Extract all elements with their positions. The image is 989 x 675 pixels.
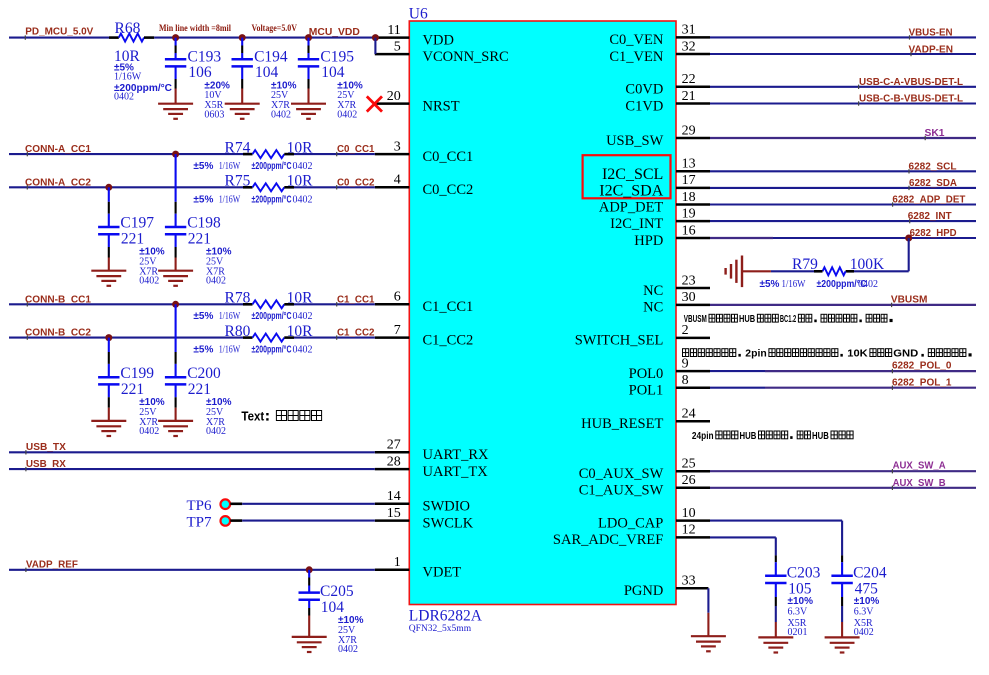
- R68 value 10R: [114, 48, 141, 65]
- ground under C203: [758, 637, 793, 652]
- ground under C193: [158, 104, 193, 119]
- svg-text:10R: 10R: [287, 172, 314, 189]
- junction MCU_VDD at C194: [239, 34, 246, 41]
- svg-text:C197: C197: [120, 215, 154, 232]
- svg-text:1/16W: 1/16W: [219, 194, 241, 205]
- R75 value 10R: [287, 172, 314, 189]
- svg-text:C0VD: C0VD: [625, 82, 663, 98]
- wire USB_RX: [9, 467, 375, 471]
- C205 parameters: [338, 615, 364, 655]
- pin 10 LDO_CAP: [598, 506, 710, 532]
- svg-text:SWITCH_SEL: SWITCH_SEL: [575, 333, 664, 349]
- svg-text:106: 106: [188, 64, 212, 81]
- wire branch to pin 5: [374, 38, 376, 55]
- net label USB_RX: [26, 458, 66, 470]
- net label 6282_INT: [908, 210, 953, 222]
- svg-text:6282_SDA: 6282_SDA: [909, 177, 957, 189]
- C205 designator: [320, 583, 354, 600]
- svg-text:11: 11: [387, 23, 400, 38]
- svg-text:R78: R78: [225, 290, 251, 307]
- note Voltage=5.0V: [252, 24, 298, 34]
- svg-text:BC1.2: BC1.2: [780, 314, 797, 325]
- pin 19 I2C_INT: [610, 206, 710, 232]
- C200 parameters: [206, 397, 232, 437]
- test point TP6: [221, 499, 375, 509]
- note HUB reset chinese: [692, 431, 853, 442]
- net label USB_TX: [26, 441, 66, 453]
- svg-text:22: 22: [682, 72, 696, 87]
- svg-text:C193: C193: [188, 49, 222, 66]
- svg-text:USB-C-B-VBUS-DET-L: USB-C-B-VBUS-DET-L: [859, 93, 964, 105]
- svg-text:SK1: SK1: [925, 127, 945, 139]
- wire SAR_ADC_VREF to C203: [710, 537, 776, 555]
- wire CONN-B_CC2: [9, 335, 375, 339]
- svg-text:C194: C194: [254, 49, 288, 66]
- svg-text:0402: 0402: [293, 345, 313, 356]
- IC designator U6: [409, 6, 428, 23]
- svg-text:21: 21: [682, 89, 696, 104]
- C198 parameters: [206, 247, 232, 287]
- C199 parameters: [139, 397, 165, 437]
- C195 parameters: [337, 81, 363, 121]
- note game-console chinese: [683, 349, 972, 360]
- svg-text:C0_VEN: C0_VEN: [609, 32, 664, 48]
- svg-text:30: 30: [682, 290, 696, 305]
- svg-text:HUB_RESET: HUB_RESET: [581, 416, 663, 432]
- ground at PGND pin 33: [691, 636, 726, 651]
- test point TP7: [221, 516, 375, 526]
- svg-text:R79: R79: [792, 256, 818, 273]
- svg-text:POL1: POL1: [629, 383, 664, 399]
- net label USB-C-B-VBUS-DET-L: [859, 93, 964, 105]
- pin 8 POL1: [629, 373, 710, 399]
- ground under C195: [291, 104, 326, 119]
- svg-text:C0_CC1: C0_CC1: [423, 149, 474, 165]
- C193 value 106: [188, 64, 212, 81]
- svg-text:6: 6: [394, 290, 401, 305]
- svg-text:5: 5: [394, 39, 401, 54]
- svg-text:26: 26: [682, 473, 696, 488]
- svg-text:10R: 10R: [287, 139, 314, 156]
- R75 designator: [225, 172, 251, 189]
- svg-text:C203: C203: [787, 565, 821, 582]
- svg-text:0402: 0402: [854, 627, 874, 638]
- svg-text:0402: 0402: [206, 276, 226, 287]
- svg-text:I2C_SCL: I2C_SCL: [602, 166, 663, 183]
- svg-text:0402: 0402: [139, 426, 159, 437]
- C200 value 221: [188, 381, 211, 398]
- C198 designator: [187, 215, 221, 232]
- capacitor C203: [765, 555, 786, 637]
- svg-text:Text: Text: [241, 410, 265, 424]
- svg-text:C199: C199: [120, 365, 154, 382]
- C193 designator: [188, 49, 222, 66]
- svg-text:USB_SW: USB_SW: [606, 133, 664, 149]
- C203 parameters: [788, 596, 814, 638]
- wire 6282_ADP_DET: [710, 202, 976, 206]
- wire VBUSM: [710, 303, 976, 307]
- R74 designator: [225, 139, 251, 156]
- red highlight box around I2C pins: [583, 155, 671, 198]
- svg-text:29: 29: [682, 123, 696, 138]
- R79 value 100K: [850, 256, 885, 273]
- wire SK1: [710, 136, 976, 140]
- svg-text:R68: R68: [115, 20, 141, 37]
- resistor R78: [243, 300, 294, 308]
- svg-text:CONN-A_CC1: CONN-A_CC1: [25, 143, 91, 155]
- svg-text:MCU_VDD: MCU_VDD: [309, 26, 360, 38]
- R68 parameters: [114, 63, 172, 103]
- junction CONN-B_CC2 at C199: [105, 334, 112, 341]
- svg-text:AUX_SW_A: AUX_SW_A: [893, 460, 946, 472]
- svg-text:10R: 10R: [287, 290, 314, 307]
- svg-text:C1VD: C1VD: [625, 98, 663, 114]
- svg-text:0603: 0603: [204, 109, 224, 120]
- wire CONN-A_CC1: [9, 152, 375, 156]
- svg-text:QFN32_5x5mm: QFN32_5x5mm: [409, 624, 472, 634]
- svg-text:C1_VEN: C1_VEN: [609, 49, 664, 65]
- svg-text:15: 15: [387, 506, 401, 521]
- pin 24 HUB_RESET: [581, 407, 710, 433]
- wire VBUS-EN: [710, 35, 976, 39]
- C198 value 221: [188, 231, 211, 248]
- svg-text:VCONN_SRC: VCONN_SRC: [423, 49, 509, 65]
- net label VBUS-EN: [909, 26, 953, 38]
- svg-text:0402: 0402: [293, 311, 313, 322]
- svg-text:HUB: HUB: [740, 431, 757, 442]
- pin 5 VCONN_SRC: [375, 39, 509, 65]
- net label 6282_POL_0: [892, 360, 952, 372]
- svg-text:C1_CC1: C1_CC1: [337, 293, 375, 305]
- pin 28 UART_TX: [375, 454, 488, 480]
- svg-text:1/16W: 1/16W: [114, 71, 142, 82]
- svg-text:R74: R74: [225, 139, 251, 156]
- net label 6282_SDA: [909, 177, 957, 189]
- pin 11 VDD: [375, 23, 454, 49]
- C197 value 221: [121, 231, 144, 248]
- resistor R74: [243, 150, 294, 158]
- svg-text:221: 221: [121, 231, 144, 248]
- svg-text:±5%: ±5%: [193, 194, 213, 205]
- pin 15 SWCLK: [375, 506, 474, 532]
- C197 designator: [120, 215, 154, 232]
- pin 25 C0_AUX_SW: [579, 457, 710, 483]
- svg-text:VADP_REF: VADP_REF: [26, 559, 79, 571]
- svg-text:2pin: 2pin: [745, 349, 766, 360]
- net label 6282_POL_1: [892, 376, 952, 388]
- svg-text:2: 2: [682, 323, 689, 338]
- net label SK1: [925, 127, 945, 139]
- svg-text:±200ppm/°C: ±200ppm/°C: [252, 345, 292, 356]
- svg-text:PGND: PGND: [624, 583, 663, 599]
- net label AUX_SW_B: [893, 477, 946, 489]
- capacitor C194: [232, 38, 253, 104]
- svg-text:C1_AUX_SW: C1_AUX_SW: [579, 483, 664, 499]
- wire HPD to R79: [854, 238, 909, 271]
- svg-text:±5%: ±5%: [193, 161, 213, 172]
- pin 22 C0VD: [625, 72, 710, 98]
- pin 16 HPD: [634, 223, 710, 249]
- svg-text:GND: GND: [893, 349, 918, 360]
- svg-text:C1_CC2: C1_CC2: [423, 332, 474, 348]
- net label 6282_SCL: [909, 160, 958, 172]
- svg-text:10K: 10K: [847, 349, 867, 360]
- svg-text:C1_CC2: C1_CC2: [337, 327, 375, 339]
- pin 26 C1_AUX_SW: [579, 473, 710, 499]
- svg-text:CONN-B_CC2: CONN-B_CC2: [25, 327, 91, 339]
- svg-text:31: 31: [682, 23, 696, 38]
- wire CONN-A_CC2: [9, 185, 375, 189]
- svg-text:0402: 0402: [337, 109, 357, 120]
- net label PD_MCU_5.0V: [25, 26, 93, 38]
- svg-text:SWDIO: SWDIO: [423, 499, 471, 515]
- TP6 label: [186, 498, 212, 514]
- wire USB-C-B-VBUS-DET-L: [710, 101, 976, 105]
- svg-text:4: 4: [394, 173, 401, 188]
- pin 33 PGND: [624, 574, 709, 600]
- R80 parameters: [193, 345, 312, 356]
- svg-text:Voltage=5.0V: Voltage=5.0V: [252, 24, 298, 34]
- svg-text:C0_CC1: C0_CC1: [337, 143, 375, 155]
- junction CONN-A_CC1 at C198: [172, 151, 179, 158]
- net label CONN-A_CC2: [25, 176, 91, 188]
- svg-text:221: 221: [188, 381, 211, 398]
- svg-text:ADP_DET: ADP_DET: [599, 199, 664, 215]
- svg-text:±10%: ±10%: [854, 596, 880, 607]
- svg-text:221: 221: [188, 231, 211, 248]
- net label C1_CC2: [337, 327, 375, 340]
- svg-text:16: 16: [682, 223, 696, 238]
- svg-text:±5%: ±5%: [193, 311, 213, 322]
- svg-text:NC: NC: [643, 283, 663, 299]
- net label MCU_VDD: [309, 26, 360, 38]
- pin 6 C1_CC1: [375, 290, 473, 316]
- junction MCU_VDD at C193: [172, 34, 179, 41]
- R78 value 10R: [287, 290, 314, 307]
- C195 designator: [320, 49, 354, 66]
- wire CONN-B_CC1: [9, 302, 375, 306]
- svg-text:12: 12: [682, 523, 696, 538]
- svg-text:20: 20: [387, 89, 401, 104]
- svg-text:C198: C198: [187, 215, 221, 232]
- svg-text:USB_RX: USB_RX: [26, 458, 66, 470]
- svg-text:±200ppm/°C: ±200ppm/°C: [252, 194, 292, 205]
- svg-text:0201: 0201: [788, 627, 808, 638]
- svg-text:VADP-EN: VADP-EN: [909, 43, 954, 55]
- op-amp/IC body U6 LDR6282A: [409, 21, 676, 605]
- svg-text:±200ppm/°C: ±200ppm/°C: [252, 311, 292, 322]
- svg-text:C195: C195: [320, 49, 354, 66]
- capacitor C193: [165, 38, 186, 104]
- net label CONN-B_CC1: [25, 293, 91, 305]
- pin 17 I2C_SDA: [599, 173, 710, 199]
- svg-text:24pin: 24pin: [692, 431, 714, 442]
- svg-text:USB-C-A-VBUS-DET-L: USB-C-A-VBUS-DET-L: [859, 76, 964, 88]
- R78 parameters: [193, 311, 312, 322]
- svg-text:C1_CC1: C1_CC1: [423, 299, 474, 315]
- svg-text:TP7: TP7: [186, 515, 212, 531]
- svg-text:100K: 100K: [850, 256, 885, 273]
- svg-text:VBUS-EN: VBUS-EN: [909, 26, 953, 38]
- wire 6282_INT: [710, 219, 976, 223]
- capacitor C197: [98, 187, 119, 270]
- svg-text:NRST: NRST: [423, 98, 460, 114]
- net label VADP_REF: [26, 559, 79, 571]
- wire USB_TX: [9, 450, 375, 454]
- C194 parameters: [271, 81, 297, 121]
- svg-text:C200: C200: [187, 365, 221, 382]
- svg-text:104: 104: [321, 599, 345, 616]
- ground sideways at R79: [726, 256, 771, 288]
- svg-text:0402: 0402: [139, 276, 159, 287]
- C197 parameters: [139, 247, 165, 287]
- C195 value 104: [321, 64, 345, 81]
- pin 30 NC: [643, 290, 710, 316]
- svg-text:1/16W: 1/16W: [219, 161, 241, 172]
- note Min line width: [159, 24, 231, 34]
- pin 29 USB_SW: [606, 123, 710, 149]
- svg-text:TP6: TP6: [186, 498, 212, 514]
- no-connect X on NRST pin 20: [367, 96, 382, 111]
- pin 20 NRST: [374, 89, 459, 115]
- junction MCU_VDD at pin11 branch: [372, 34, 379, 41]
- junction CONN-A_CC2 at C197: [105, 184, 112, 191]
- svg-text:6282_ADP_DET: 6282_ADP_DET: [892, 194, 966, 206]
- wire AUX_SW_B: [710, 486, 976, 490]
- net label C1_CC1: [337, 293, 375, 306]
- net label C0_CC1: [337, 143, 375, 156]
- note Text: serial upgrade: [241, 410, 321, 424]
- C203 value 105: [788, 581, 812, 598]
- pin 2 SWITCH_SEL: [575, 323, 710, 349]
- svg-text:R75: R75: [225, 172, 251, 189]
- svg-text:±5%: ±5%: [760, 279, 780, 290]
- C194 value 104: [255, 64, 279, 81]
- svg-text:24: 24: [682, 407, 696, 422]
- svg-text:C0_CC2: C0_CC2: [337, 176, 375, 188]
- svg-text:HUB: HUB: [739, 314, 755, 325]
- wire 6282_POL_1: [710, 386, 976, 390]
- svg-text:C0_CC2: C0_CC2: [423, 182, 474, 198]
- svg-text:25: 25: [682, 457, 696, 472]
- C193 parameters: [204, 81, 230, 121]
- svg-text:1/16W: 1/16W: [219, 311, 241, 322]
- svg-text:0402: 0402: [858, 279, 878, 290]
- pin 14 SWDIO: [375, 489, 470, 514]
- C199 designator: [120, 365, 154, 382]
- junction VADP_REF at C205: [306, 566, 313, 573]
- capacitor C200: [165, 304, 186, 421]
- net label VADP-EN: [909, 43, 954, 55]
- junction MCU_VDD at C195: [305, 34, 312, 41]
- ground under C197: [91, 271, 126, 286]
- svg-text:6.3V: 6.3V: [788, 606, 809, 617]
- svg-text:CONN-B_CC1: CONN-B_CC1: [25, 293, 91, 305]
- note VBUSM chinese: [684, 314, 893, 325]
- C199 value 221: [121, 381, 144, 398]
- wire 6282_POL_0: [710, 369, 976, 373]
- pin 23 NC: [643, 273, 710, 299]
- svg-text:C204: C204: [853, 565, 887, 582]
- svg-text:221: 221: [121, 381, 144, 398]
- svg-text:HUB: HUB: [812, 431, 829, 442]
- pin 31 C0_VEN: [609, 23, 710, 49]
- svg-text:HPD: HPD: [634, 233, 663, 249]
- pin 32 C1_VEN: [609, 39, 710, 65]
- pin 12 SAR_ADC_VREF: [553, 523, 710, 549]
- svg-text:LDO_CAP: LDO_CAP: [598, 515, 663, 531]
- junction 6282_HPD at R79 branch: [905, 235, 912, 242]
- C200 designator: [187, 365, 221, 382]
- C205 value 104: [321, 599, 345, 616]
- pin 27 UART_RX: [375, 438, 489, 464]
- wire PD_MCU_5.0V to R68: [9, 35, 109, 39]
- pin 4 C0_CC2: [375, 173, 473, 199]
- svg-text:104: 104: [321, 64, 345, 81]
- TP7 label: [186, 515, 212, 531]
- resistor R80: [243, 334, 294, 342]
- C194 designator: [254, 49, 288, 66]
- R75 parameters: [193, 194, 312, 205]
- pin 9 POL0: [629, 356, 710, 382]
- svg-text:9: 9: [682, 356, 689, 371]
- svg-text:33: 33: [682, 574, 696, 589]
- svg-text:10R: 10R: [287, 323, 314, 340]
- ground under C205: [292, 637, 327, 652]
- svg-text:104: 104: [255, 64, 279, 81]
- R78 designator: [225, 290, 251, 307]
- svg-text:USB_TX: USB_TX: [26, 441, 66, 453]
- svg-text:28: 28: [387, 454, 401, 469]
- R68 designator: [115, 20, 141, 37]
- wire MCU_VDD rail: [154, 37, 375, 39]
- capacitor C205: [299, 570, 320, 637]
- pin 18 ADP_DET: [599, 190, 710, 216]
- svg-text:SWCLK: SWCLK: [423, 515, 474, 531]
- svg-text:6282_INT: 6282_INT: [908, 210, 953, 222]
- pin 21 C1VD: [625, 89, 710, 115]
- svg-text:0402: 0402: [206, 426, 226, 437]
- ground under C204: [825, 637, 860, 652]
- net label AUX_SW_A: [893, 460, 946, 472]
- wire 6282_SDA: [710, 186, 976, 190]
- svg-text:1/16W: 1/16W: [219, 345, 241, 356]
- svg-text:VDET: VDET: [423, 565, 462, 581]
- capacitor C195: [298, 38, 319, 104]
- svg-text:LDR6282A: LDR6282A: [409, 608, 483, 625]
- svg-text:1: 1: [394, 555, 401, 570]
- IC footprint QFN32_5x5mm: [409, 624, 472, 634]
- pin 13 I2C_SCL: [602, 157, 710, 183]
- svg-text:U6: U6: [409, 6, 428, 23]
- svg-text:CONN-A_CC2: CONN-A_CC2: [25, 176, 91, 188]
- C204 designator: [853, 565, 887, 582]
- wire 6282_SCL: [710, 169, 976, 173]
- R80 value 10R: [287, 323, 314, 340]
- svg-text:I2C_INT: I2C_INT: [610, 216, 663, 232]
- C204 parameters: [854, 596, 880, 638]
- svg-text:3: 3: [394, 139, 401, 154]
- wire LDO_CAP to C204: [710, 521, 842, 556]
- svg-text:7: 7: [394, 323, 401, 338]
- pin 7 C1_CC2: [375, 323, 473, 349]
- svg-text:6282_SCL: 6282_SCL: [909, 160, 958, 172]
- svg-text:10: 10: [682, 506, 696, 521]
- net label CONN-A_CC1: [25, 143, 91, 155]
- resistor R79: [771, 267, 854, 275]
- svg-text:14: 14: [387, 489, 401, 504]
- R79 designator: [792, 256, 818, 273]
